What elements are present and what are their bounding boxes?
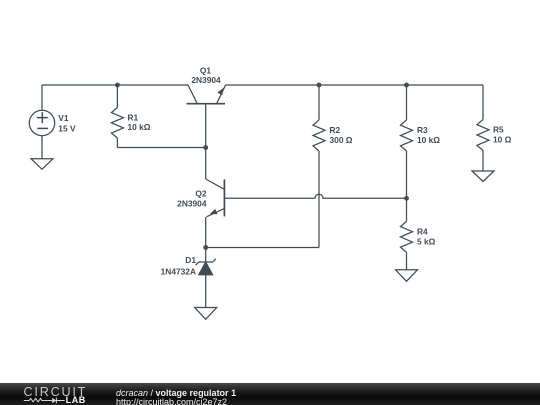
R2 zigzag bbox=[313, 120, 325, 151]
resistor R1 bbox=[111, 85, 150, 148]
voltage source V1 bbox=[29, 85, 76, 159]
Q1 base bar bbox=[187, 103, 226, 105]
wire R4 bottom lead bbox=[406, 252, 408, 269]
Q2 emitter wire down bbox=[205, 217, 207, 248]
svg-text:10 kΩ: 10 kΩ bbox=[128, 122, 151, 132]
wire R5 bottom lead bbox=[482, 151, 484, 172]
node dot at R2 top bbox=[317, 83, 322, 88]
svg-text:2N3904: 2N3904 bbox=[177, 198, 207, 208]
wire Q2 base to R3/R4 node with hop over R2 wire bbox=[224, 194, 406, 198]
Q1 collector angled lead bbox=[188, 85, 197, 104]
svg-text:R2: R2 bbox=[330, 125, 341, 135]
V1 circle body bbox=[29, 110, 54, 135]
svg-text:R5: R5 bbox=[493, 125, 504, 135]
Q2 emitter angled lead bbox=[207, 208, 225, 216]
resistor R5 bbox=[477, 85, 512, 171]
ground for R4 bbox=[396, 270, 418, 282]
svg-text:2N3904: 2N3904 bbox=[191, 75, 221, 85]
D1 zener cathode bar bbox=[196, 259, 216, 265]
svg-text:15 V: 15 V bbox=[58, 124, 76, 134]
Q2 collector angled lead bbox=[206, 179, 225, 189]
svg-text:D1: D1 bbox=[185, 255, 196, 265]
Q1 base vertical wire down to Q2 bbox=[205, 104, 207, 179]
wire R4 top lead bbox=[406, 198, 408, 221]
svg-text:1N4732A: 1N4732A bbox=[161, 266, 196, 276]
node dot at R1 top bbox=[115, 83, 120, 88]
node dot at R3 top bbox=[404, 83, 409, 88]
footer bar bbox=[0, 383, 540, 405]
wire R2 bottom to Q2 emitter node bbox=[206, 247, 319, 249]
CircuitLab logo CIRCUIT bbox=[24, 387, 88, 397]
wire R2 top lead bbox=[318, 85, 320, 120]
CircuitLab logo squiggle (resistor + diode) bbox=[20, 395, 70, 405]
resistor R3 bbox=[401, 85, 441, 198]
V1 minus sign bbox=[37, 127, 48, 129]
svg-text:R3: R3 bbox=[417, 125, 428, 135]
svg-text:Q2: Q2 bbox=[195, 189, 207, 199]
Q1 emitter angled lead bbox=[217, 85, 226, 104]
wire top rail right segment bbox=[226, 84, 484, 86]
resistor R2 bbox=[313, 85, 353, 248]
R1 zigzag bbox=[111, 108, 123, 139]
CircuitLab logo LAB bbox=[66, 395, 86, 405]
wire R1 bottom to Q1 base node bbox=[117, 147, 205, 149]
svg-text:R4: R4 bbox=[417, 227, 428, 237]
wire R3 top lead bbox=[406, 85, 408, 120]
Q1 emitter arrow head bbox=[217, 88, 224, 95]
svg-text:10 kΩ: 10 kΩ bbox=[417, 135, 440, 145]
svg-text:V1: V1 bbox=[58, 113, 69, 123]
wire R1 bottom lead bbox=[116, 138, 118, 148]
wire V1 bottom lead bbox=[41, 136, 43, 159]
node dot R3/R4/base bbox=[404, 196, 409, 201]
wire V1 top lead bbox=[41, 85, 43, 110]
Q2 emitter arrow head bbox=[210, 209, 218, 214]
wire R5 top lead bbox=[482, 85, 484, 120]
svg-text:5 kΩ: 5 kΩ bbox=[417, 236, 436, 246]
svg-text:10 Ω: 10 Ω bbox=[493, 134, 512, 144]
ground for D1 bbox=[195, 308, 217, 320]
R3 zigzag bbox=[401, 120, 413, 151]
wire R1 top lead bbox=[116, 85, 118, 108]
wire R2 bottom long lead bbox=[318, 151, 320, 248]
footer text bbox=[116, 389, 236, 405]
node dot Q2 emitter / R2 / D1 bbox=[203, 245, 208, 250]
ground for V1 bbox=[31, 159, 53, 170]
zener diode D1 1N4732A bbox=[161, 248, 216, 308]
wire D1 bottom lead bbox=[205, 275, 207, 308]
node dot Q1 base / R1 bbox=[203, 145, 208, 150]
svg-text:300 Ω: 300 Ω bbox=[330, 135, 353, 145]
R5 zigzag bbox=[477, 120, 489, 151]
wire D1 top lead bbox=[205, 248, 207, 263]
ground for R5 bbox=[472, 171, 494, 182]
svg-text:R1: R1 bbox=[128, 113, 139, 123]
R4 zigzag bbox=[401, 221, 413, 252]
wire R3 bottom lead bbox=[406, 151, 408, 198]
wire top rail left segment bbox=[42, 84, 188, 86]
transistor Q1 2N3904 bbox=[187, 66, 226, 180]
V1 plus sign bbox=[37, 112, 48, 123]
Q2 base bar vertical bbox=[223, 179, 225, 216]
resistor R4 bbox=[401, 198, 436, 269]
transistor Q2 2N3904 bbox=[177, 179, 224, 248]
D1 triangle bbox=[199, 262, 213, 275]
